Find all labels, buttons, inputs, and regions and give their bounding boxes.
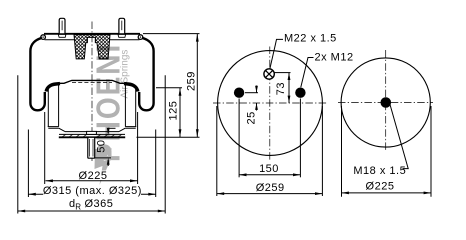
svg-text:Ø365: Ø365 [85,198,114,210]
piston dish line [65,131,119,133]
leader M22 [270,39,283,68]
dim 25 [245,86,258,125]
dim dia315 max325 [28,130,155,198]
svg-text:M22 x 1.5: M22 x 1.5 [284,33,337,45]
watermark wing [95,149,113,186]
bellows shoulder right [124,84,138,92]
dim 73 [275,73,291,103]
piston top profile [60,80,125,83]
dim 150 [239,99,300,178]
piston hidden edge dashes [72,82,112,84]
plate serrations [62,135,122,137]
centerline left view [91,22,93,164]
svg-text:M18 x 1.5: M18 x 1.5 [353,165,406,177]
piston skirt left [47,89,49,127]
dim dia259 [217,106,323,196]
stud right [118,18,126,37]
stud left [58,18,66,37]
bellows outline right side [139,38,153,111]
dim dR dia365 [18,75,165,213]
svg-text:Ø225: Ø225 [366,181,395,193]
dim 50 [95,128,116,166]
watermark PHOENIX [89,22,130,185]
dim 125 [156,88,182,138]
svg-text:Ø225: Ø225 [79,170,108,182]
circle dia259 [218,51,323,156]
M12 hole right [295,88,305,98]
dim 259 right [137,34,200,138]
svg-text:25: 25 [245,111,257,124]
piston bottom bevels [59,128,125,131]
bead right [138,35,143,40]
svg-text:R: R [75,202,81,211]
M18 hole center [381,97,392,108]
svg-text:125: 125 [168,101,180,121]
bottom boss [87,131,97,134]
piston bottom ledge [48,127,137,129]
centerline horizontal [338,102,433,104]
leader 2x M12 [301,58,314,88]
leader M18 [390,105,408,169]
piston inner edge right [124,85,126,127]
svg-text:150: 150 [259,163,279,175]
circle dia225 [341,58,430,147]
bellows shoulder left (rolled over piston edge) [46,84,60,92]
svg-text:73: 73 [275,82,287,95]
bead left [41,35,46,40]
dim dia225 right view [342,106,432,197]
svg-text:2x M12: 2x M12 [315,52,354,64]
svg-text:Ø315 (max. Ø325): Ø315 (max. Ø325) [43,185,142,197]
dim dia225 bottom [45,112,138,184]
piston bottom plate band [59,133,125,135]
svg-text:Ø259: Ø259 [256,182,285,194]
top plate bottom line [45,39,140,41]
bottom stud M18 [88,137,95,158]
piston inner edge left [58,85,60,127]
top plate top line [44,33,140,35]
rubber bumper (crosshatched) [74,35,110,59]
centerline vertical [269,47,271,162]
centerline vertical [385,50,387,152]
air fitting M22 symbol [264,69,274,79]
piston skirt right [135,89,137,127]
M12 hole left [234,88,244,98]
svg-text:259: 259 [186,71,198,91]
svg-text:50: 50 [95,139,107,152]
centerline horizontal [213,102,328,104]
bellows outline left side [30,38,44,111]
